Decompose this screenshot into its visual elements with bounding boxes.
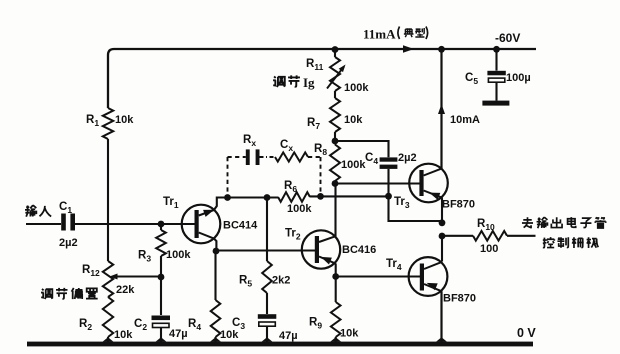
svg-text:100k: 100k — [341, 159, 366, 171]
svg-text:BF870: BF870 — [442, 199, 475, 211]
svg-text:2µ2: 2µ2 — [59, 237, 78, 249]
svg-text:0 V: 0 V — [517, 326, 536, 340]
svg-text:Ig: Ig — [303, 75, 315, 90]
svg-text:47µ: 47µ — [169, 328, 188, 340]
svg-text:10k: 10k — [340, 328, 359, 340]
svg-text:22k: 22k — [116, 284, 135, 296]
svg-text:-60V: -60V — [495, 31, 520, 45]
svg-text:10k: 10k — [344, 114, 363, 126]
svg-text:BC414: BC414 — [223, 220, 258, 232]
svg-text:2µ2: 2µ2 — [398, 152, 417, 164]
svg-text:BF870: BF870 — [443, 293, 476, 305]
svg-text:2k2: 2k2 — [272, 275, 290, 287]
svg-text:10k: 10k — [115, 114, 134, 126]
svg-text:10k: 10k — [220, 329, 239, 341]
svg-text:100k: 100k — [287, 203, 312, 215]
svg-text:10mA: 10mA — [450, 114, 480, 126]
svg-text:11mA: 11mA — [363, 27, 396, 42]
svg-text:100: 100 — [480, 243, 498, 255]
svg-text:10k: 10k — [114, 329, 133, 341]
svg-text:47µ: 47µ — [279, 330, 298, 342]
svg-text:100µ: 100µ — [506, 72, 531, 84]
svg-text:100k: 100k — [166, 249, 191, 261]
svg-text:100k: 100k — [344, 82, 369, 94]
svg-text:BC416: BC416 — [342, 244, 376, 256]
